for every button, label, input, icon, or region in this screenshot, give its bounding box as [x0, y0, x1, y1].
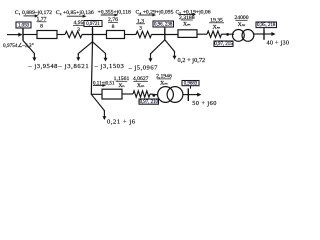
svg-text:0,97, 215: 0,97, 215: [214, 42, 233, 47]
resistor R34 (box): [178, 30, 197, 38]
wire: bus1 to R1: [23, 34, 37, 36]
node: bus 1: [22, 29, 24, 41]
wire: R34 to X34: [197, 33, 207, 35]
shunt branch bus3 right: 0.2 + j0.72: [165, 40, 175, 53]
inductor X34 (zigzag): [207, 31, 222, 37]
resistor R26 (box) lower: [102, 89, 122, 99]
transformer T1 (two circles): [233, 30, 245, 42]
svg-text:С₁ 0,889–j0,172: С₁ 0,889–j0,172: [15, 10, 52, 16]
svg-text:0,97, 210: 0,97, 210: [140, 100, 159, 105]
load arrow bus 5: [188, 94, 198, 96]
shunt branch bus2 right: -j3.1503: [93, 42, 106, 55]
svg-text:– j3,1503: – j3,1503: [94, 63, 125, 70]
junction dot lower: [152, 94, 155, 97]
flow arrow 2: [67, 15, 84, 17]
svg-text:1,050: 1,050: [18, 24, 30, 29]
label: bus 3 voltage box: [153, 21, 174, 27]
svg-text:Xₘ: Xₘ: [183, 22, 191, 28]
wire: R12 to X12: [57, 34, 65, 36]
lower flow arrow: [93, 84, 103, 86]
svg-text:Xₘ: Xₘ: [137, 83, 145, 89]
label: bus 2 voltage box: [84, 21, 102, 27]
svg-text:Xₘ: Xₘ: [160, 81, 168, 87]
node: bus 5: [187, 88, 189, 101]
wire: box4 connector: [263, 28, 265, 30]
svg-text:3: 3: [139, 25, 142, 31]
wire: X23 to bus 3: [152, 34, 179, 36]
inductor X23 (zigzag): [136, 31, 152, 37]
svg-text:8: 8: [40, 23, 43, 29]
inductor X26 (zigzag) lower: [133, 91, 150, 97]
svg-text:0,2 + j0,72: 0,2 + j0,72: [178, 57, 206, 64]
svg-text:– j5,0967: – j5,0967: [128, 65, 159, 72]
wire T2 to bus 5: [183, 94, 188, 96]
resistor R23 (box): [107, 31, 125, 39]
svg-text:0,96, 238: 0,96, 238: [154, 23, 173, 28]
shunt branch bus2 left: -j3.8621: [78, 42, 92, 55]
label: bus 1 voltage box: [16, 22, 31, 28]
flow arrow 4: [138, 14, 153, 16]
svg-text:– j3,8621: – j3,8621: [58, 63, 90, 70]
wire: R23 to X23: [125, 34, 137, 36]
transformer T2 (two circles) lower: [158, 87, 174, 103]
wire: X34 to junction: [222, 33, 235, 35]
shunt branch bus3 left: -j5.0967: [151, 40, 165, 55]
svg-text:0,9754∠–2,3°: 0,9754∠–2,3°: [3, 42, 34, 49]
svg-text:Xₘ: Xₘ: [238, 22, 246, 28]
load arrow bus 4: [264, 33, 272, 35]
shunt branch bus1: -j3.9548: [23, 41, 34, 56]
branch to load 0.21 + j6: [91, 94, 104, 111]
svg-text:50 + j60: 50 + j60: [192, 100, 217, 107]
inductor X12 (zigzag): [65, 31, 82, 37]
node: bus 3: [164, 28, 166, 40]
value box under X26: [139, 99, 159, 104]
label: bus 5 voltage box: [182, 81, 199, 86]
wire X26 to junction dot: [150, 93, 158, 96]
svg-text:С₂ +0,85+j0,136: С₂ +0,85+j0,136: [56, 10, 94, 16]
flow arrow 3: [101, 14, 115, 16]
value box under X34: [214, 41, 233, 47]
label: bus 4 voltage box: [256, 22, 277, 28]
svg-text:Xₘ: Xₘ: [213, 24, 221, 30]
svg-text:– j3,9548: – j3,9548: [28, 63, 59, 70]
feeder wire bus2 down: [91, 42, 102, 95]
resistor R12 (box): [37, 31, 57, 39]
wire: X12 to bus 2: [82, 34, 107, 36]
wire: source lead into bus 1: [7, 34, 19, 36]
wire: T1 to bus 4: [254, 33, 264, 35]
svg-text:0,9683: 0,9683: [184, 81, 198, 86]
junction node dot: [226, 33, 229, 36]
svg-text:Xₙ: Xₙ: [118, 83, 125, 89]
svg-text:0,9721: 0,9721: [86, 22, 100, 27]
flow arrow 1: [24, 15, 36, 17]
svg-text:40 + j30: 40 + j30: [267, 39, 290, 46]
flow arrow 5: [178, 14, 193, 16]
node: bus 4: [263, 29, 265, 40]
svg-text:3: 3: [77, 27, 80, 33]
svg-text:0,95, 218: 0,95, 218: [257, 23, 276, 28]
node: bus 2: [92, 28, 94, 42]
svg-text:8: 8: [112, 24, 115, 30]
wire R26 to X26: [122, 93, 133, 95]
svg-text:0,21 + j6: 0,21 + j6: [107, 119, 136, 126]
